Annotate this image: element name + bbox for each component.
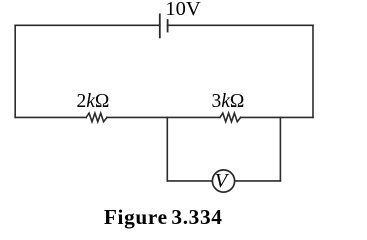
wire voltmeter bottom-left segment bbox=[167, 180, 212, 182]
wire right vertical bbox=[312, 25, 314, 117]
label 3kΩ (resistor R2 value) bbox=[212, 92, 245, 112]
wire left vertical bbox=[14, 25, 16, 117]
label 2kΩ (resistor R1 value) bbox=[77, 92, 110, 112]
wire top-right segment bbox=[168, 24, 313, 26]
wire middle-left segment bbox=[15, 116, 86, 118]
battery V1 long plate bbox=[159, 14, 161, 37]
wire voltmeter right leg bbox=[279, 117, 281, 180]
label V (voltmeter symbol) bbox=[215, 171, 228, 192]
caption Figure 3.334 bbox=[104, 207, 223, 228]
wire top-left segment bbox=[15, 24, 160, 26]
resistor R2 3kΩ zigzag bbox=[220, 113, 241, 122]
wire voltmeter bottom-right segment bbox=[235, 180, 281, 182]
resistor R1 2kΩ zigzag bbox=[86, 113, 107, 122]
wire voltmeter left leg bbox=[166, 117, 168, 180]
wire middle-center segment bbox=[107, 116, 220, 118]
label 10V (battery value) bbox=[165, 0, 200, 19]
wire middle-right segment bbox=[241, 116, 313, 118]
battery V1 short plate bbox=[167, 20, 169, 32]
voltmeter M1 circle bbox=[212, 170, 234, 192]
